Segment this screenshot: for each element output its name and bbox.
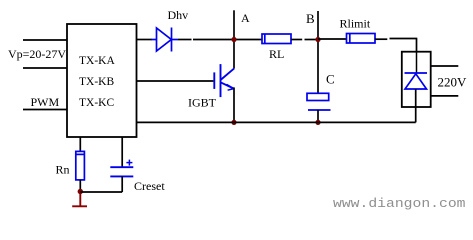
svg-text:Rn: Rn: [56, 163, 70, 177]
wire into bridge top: [416, 52, 418, 73]
svg-text:RL: RL: [269, 47, 284, 61]
wire diode to node A: [178, 39, 192, 41]
wire Vp input upper: [23, 39, 67, 41]
svg-text:TX-KB: TX-KB: [79, 76, 114, 88]
svg-text:Vp=20-27V: Vp=20-27V: [8, 47, 66, 61]
svg-text:B: B: [306, 11, 315, 26]
wire Rlimit to bridge: [375, 38, 387, 40]
wire Rn to ground node: [79, 180, 81, 192]
svg-text:Rlimit: Rlimit: [340, 17, 371, 31]
wire box bottom to Creset: [121, 137, 123, 167]
node C bottom junction: [315, 120, 320, 125]
wire gate from box to IGBT: [137, 80, 214, 82]
wire PWM input: [23, 109, 67, 111]
svg-text:Dhv: Dhv: [168, 8, 189, 22]
svg-text:Creset: Creset: [134, 179, 165, 193]
node ground junction: [78, 189, 83, 194]
wire C to bottom rail: [317, 110, 319, 122]
wire Vp input lower: [23, 67, 67, 69]
wire RL to node B: [291, 39, 302, 41]
resistor RL: [262, 34, 291, 44]
wire Creset to ground node: [80, 191, 122, 193]
svg-text:www.diangon.com: www.diangon.com: [333, 197, 466, 211]
wire node B to Rlimit: [318, 38, 347, 40]
wire box to diode Dhv: [137, 39, 153, 41]
wire vertical at node B: [317, 11, 319, 94]
node A junction: [231, 37, 236, 42]
wire IGBT emitter to bottom rail: [233, 87, 235, 122]
IC U1 TX-K box: [67, 24, 137, 137]
ground: [72, 192, 87, 207]
svg-text:PWM: PWM: [31, 95, 60, 109]
capacitor Creset: [110, 160, 133, 177]
wire box bottom to Rn: [79, 137, 81, 151]
svg-text:A: A: [241, 11, 250, 25]
diode inside bridge: [405, 73, 428, 89]
wire Creset bottom: [121, 176, 123, 192]
svg-text:TX-KC: TX-KC: [79, 97, 114, 109]
svg-text:IGBT: IGBT: [188, 96, 217, 110]
capacitor C: [307, 93, 331, 110]
wire corner down into bridge: [416, 39, 418, 73]
diode Dhv: [152, 28, 179, 52]
rectifier bridge box: [402, 52, 431, 107]
node B junction: [315, 37, 320, 42]
svg-text:220V: 220V: [438, 75, 468, 90]
resistor Rlimit: [347, 34, 376, 44]
wire 220V lower: [431, 95, 459, 97]
node IGBT emitter junction: [231, 120, 236, 125]
svg-text:TX-KA: TX-KA: [79, 55, 115, 67]
wire bridge diode anode down: [415, 89, 417, 122]
wire 220V upper: [431, 65, 459, 67]
wire vertical at node A: [233, 10, 235, 68]
svg-text:C: C: [326, 72, 335, 87]
bottom rail wire: [137, 121, 416, 123]
resistor Rn: [76, 151, 85, 180]
transistor IGBT: [214, 64, 234, 97]
